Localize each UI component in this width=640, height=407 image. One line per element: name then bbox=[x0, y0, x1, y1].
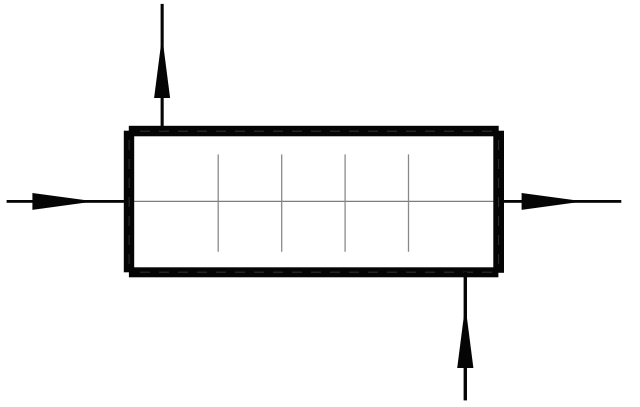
baffle line 1 bbox=[217, 154, 219, 251]
arrowhead bottom inlet bbox=[457, 305, 473, 368]
shell left seam dashes bbox=[128, 140, 130, 266]
baffle line 2 bbox=[281, 154, 283, 251]
arrowhead left inlet bbox=[32, 193, 94, 210]
wire bottom inlet shaft bbox=[464, 272, 467, 400]
node center line (tube axis) bbox=[126, 200, 502, 202]
shell top seam dashes bbox=[140, 130, 496, 132]
corner patch bottom-left bbox=[123, 272, 129, 279]
wire left inlet shaft bbox=[7, 200, 128, 203]
heat exchanger E1 shell outer stroke bbox=[127, 134, 502, 275]
baffle line 4 bbox=[408, 154, 410, 251]
baffle line 3 bbox=[344, 154, 346, 251]
heat exchanger E1 shell inner stroke bbox=[132, 129, 497, 271]
arrowhead top inlet bbox=[154, 36, 170, 98]
corner patch bottom-right bbox=[498, 273, 504, 280]
shell bottom seam dashes bbox=[140, 271, 496, 273]
wire right outlet shaft bbox=[500, 200, 621, 203]
wire top inlet shaft bbox=[161, 4, 164, 131]
arrowhead right outlet bbox=[522, 193, 584, 210]
shell right seam dashes bbox=[498, 140, 500, 266]
